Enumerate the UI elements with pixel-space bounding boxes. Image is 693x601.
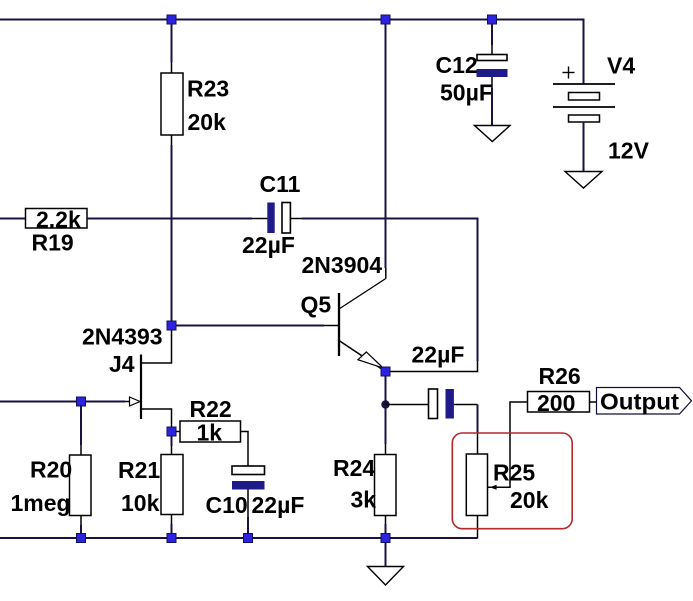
wire R20 bottom lead [80, 516, 82, 526]
node junction squares [77, 15, 497, 543]
svg-text:Output: Output [600, 389, 679, 415]
wire R25 bottom lead [477, 516, 479, 539]
svg-text:R22: R22 [190, 396, 232, 422]
wire R22 right lead to C10 [241, 432, 249, 467]
resistor R24 [375, 455, 397, 516]
wire left input to R19 [0, 218, 26, 220]
node top bus / R23 [167, 15, 176, 24]
resistor R21 [161, 455, 183, 515]
svg-text:R23: R23 [187, 76, 229, 102]
wire C12 bottom lead [491, 77, 493, 88]
svg-text:R21: R21 [118, 457, 160, 483]
ground symbol V4 [565, 172, 602, 189]
svg-text:20k: 20k [188, 109, 227, 135]
svg-text:1k: 1k [197, 420, 223, 446]
wire node to output cap [386, 404, 429, 406]
wire output cap to R25 [454, 404, 478, 406]
node dot [381, 400, 389, 408]
resistor R26 [528, 392, 590, 413]
node J4 source / R22 / R21 [167, 427, 176, 436]
transistor J4 [140, 355, 142, 420]
node J4 drain / R23 / Q5 base [167, 321, 176, 330]
wire R22 left lead [172, 431, 181, 433]
svg-text:3k: 3k [351, 487, 377, 513]
capacitor C11 [267, 203, 274, 234]
svg-text:1meg: 1meg [11, 490, 71, 516]
svg-text:R19: R19 [32, 230, 74, 256]
node top bus / C12 [488, 15, 497, 24]
transistor Q5 [338, 293, 340, 356]
svg-text:200: 200 [537, 390, 575, 416]
wire J4 source junction to R21 [171, 432, 173, 446]
wire C11 right to feedback drop [290, 218, 302, 220]
svg-text:50µF: 50µF [440, 80, 493, 106]
wire emitter junction down through node [385, 372, 387, 445]
wire feedback elbow to emitter junction [386, 361, 478, 372]
svg-text:2N3904: 2N3904 [302, 252, 383, 278]
node gate / R20 [77, 397, 86, 406]
wire R23 top lead [171, 20, 173, 63]
node ground bus / R20 [77, 534, 86, 543]
svg-text:R24: R24 [333, 455, 375, 481]
svg-text:10k: 10k [121, 490, 160, 516]
capacitor C10 [232, 466, 265, 475]
output flag [597, 388, 692, 415]
svg-text:R25: R25 [493, 460, 535, 486]
wire gate wire [0, 401, 125, 403]
svg-text:C10: C10 [206, 492, 248, 518]
node ground bus / R24 [381, 534, 390, 543]
wire ground bus [0, 537, 478, 539]
svg-text:12V: 12V [608, 138, 650, 164]
resistor R25 potentiometer [466, 454, 487, 516]
svg-text:22µF: 22µF [252, 492, 305, 518]
svg-text:2N4393: 2N4393 [82, 324, 163, 350]
svg-text:C12: C12 [436, 52, 478, 78]
wire R26 to output flag [590, 401, 597, 403]
svg-text:Q5: Q5 [301, 292, 332, 318]
svg-text:J4: J4 [109, 351, 135, 377]
wire R21 bottom lead [171, 515, 173, 525]
voltage source V4 battery [563, 72, 575, 74]
svg-text:20k: 20k [510, 487, 549, 513]
svg-text:C11: C11 [260, 171, 301, 197]
svg-text:R26: R26 [539, 363, 581, 389]
svg-text:22µF: 22µF [242, 232, 295, 258]
wiper arm of R25 [488, 402, 528, 487]
capacitor output 22uF [429, 389, 438, 419]
resistor R20 [70, 455, 92, 516]
node top bus / collector riser [381, 15, 390, 24]
svg-text:22µF: 22µF [412, 342, 465, 368]
resistor R19 [26, 209, 88, 229]
node Q5 emitter [381, 367, 390, 376]
resistor R23 [161, 73, 183, 135]
wire C10 bottom lead [247, 490, 249, 518]
node ground bus / R21 [167, 534, 176, 543]
wire R23 bottom to J4 drain junction [171, 135, 173, 145]
svg-text:V4: V4 [607, 53, 635, 79]
ground symbol bottom [385, 538, 387, 567]
wire R24 bottom lead [385, 516, 387, 525]
wire collector riser [385, 20, 387, 269]
wire base wire junction to Q5 [172, 325, 325, 327]
wire R19 to C11 [87, 218, 252, 220]
wire V4 bottom lead [583, 122, 585, 172]
resistor R22 [180, 421, 241, 442]
wire top supply bus [0, 20, 584, 85]
capacitor C12 [491, 20, 493, 46]
node ground bus / C10 [244, 534, 253, 543]
ground symbol C12 [475, 126, 511, 142]
svg-text:R20: R20 [30, 457, 72, 483]
wire R20 top lead [80, 402, 82, 446]
red highlight box [452, 433, 572, 529]
